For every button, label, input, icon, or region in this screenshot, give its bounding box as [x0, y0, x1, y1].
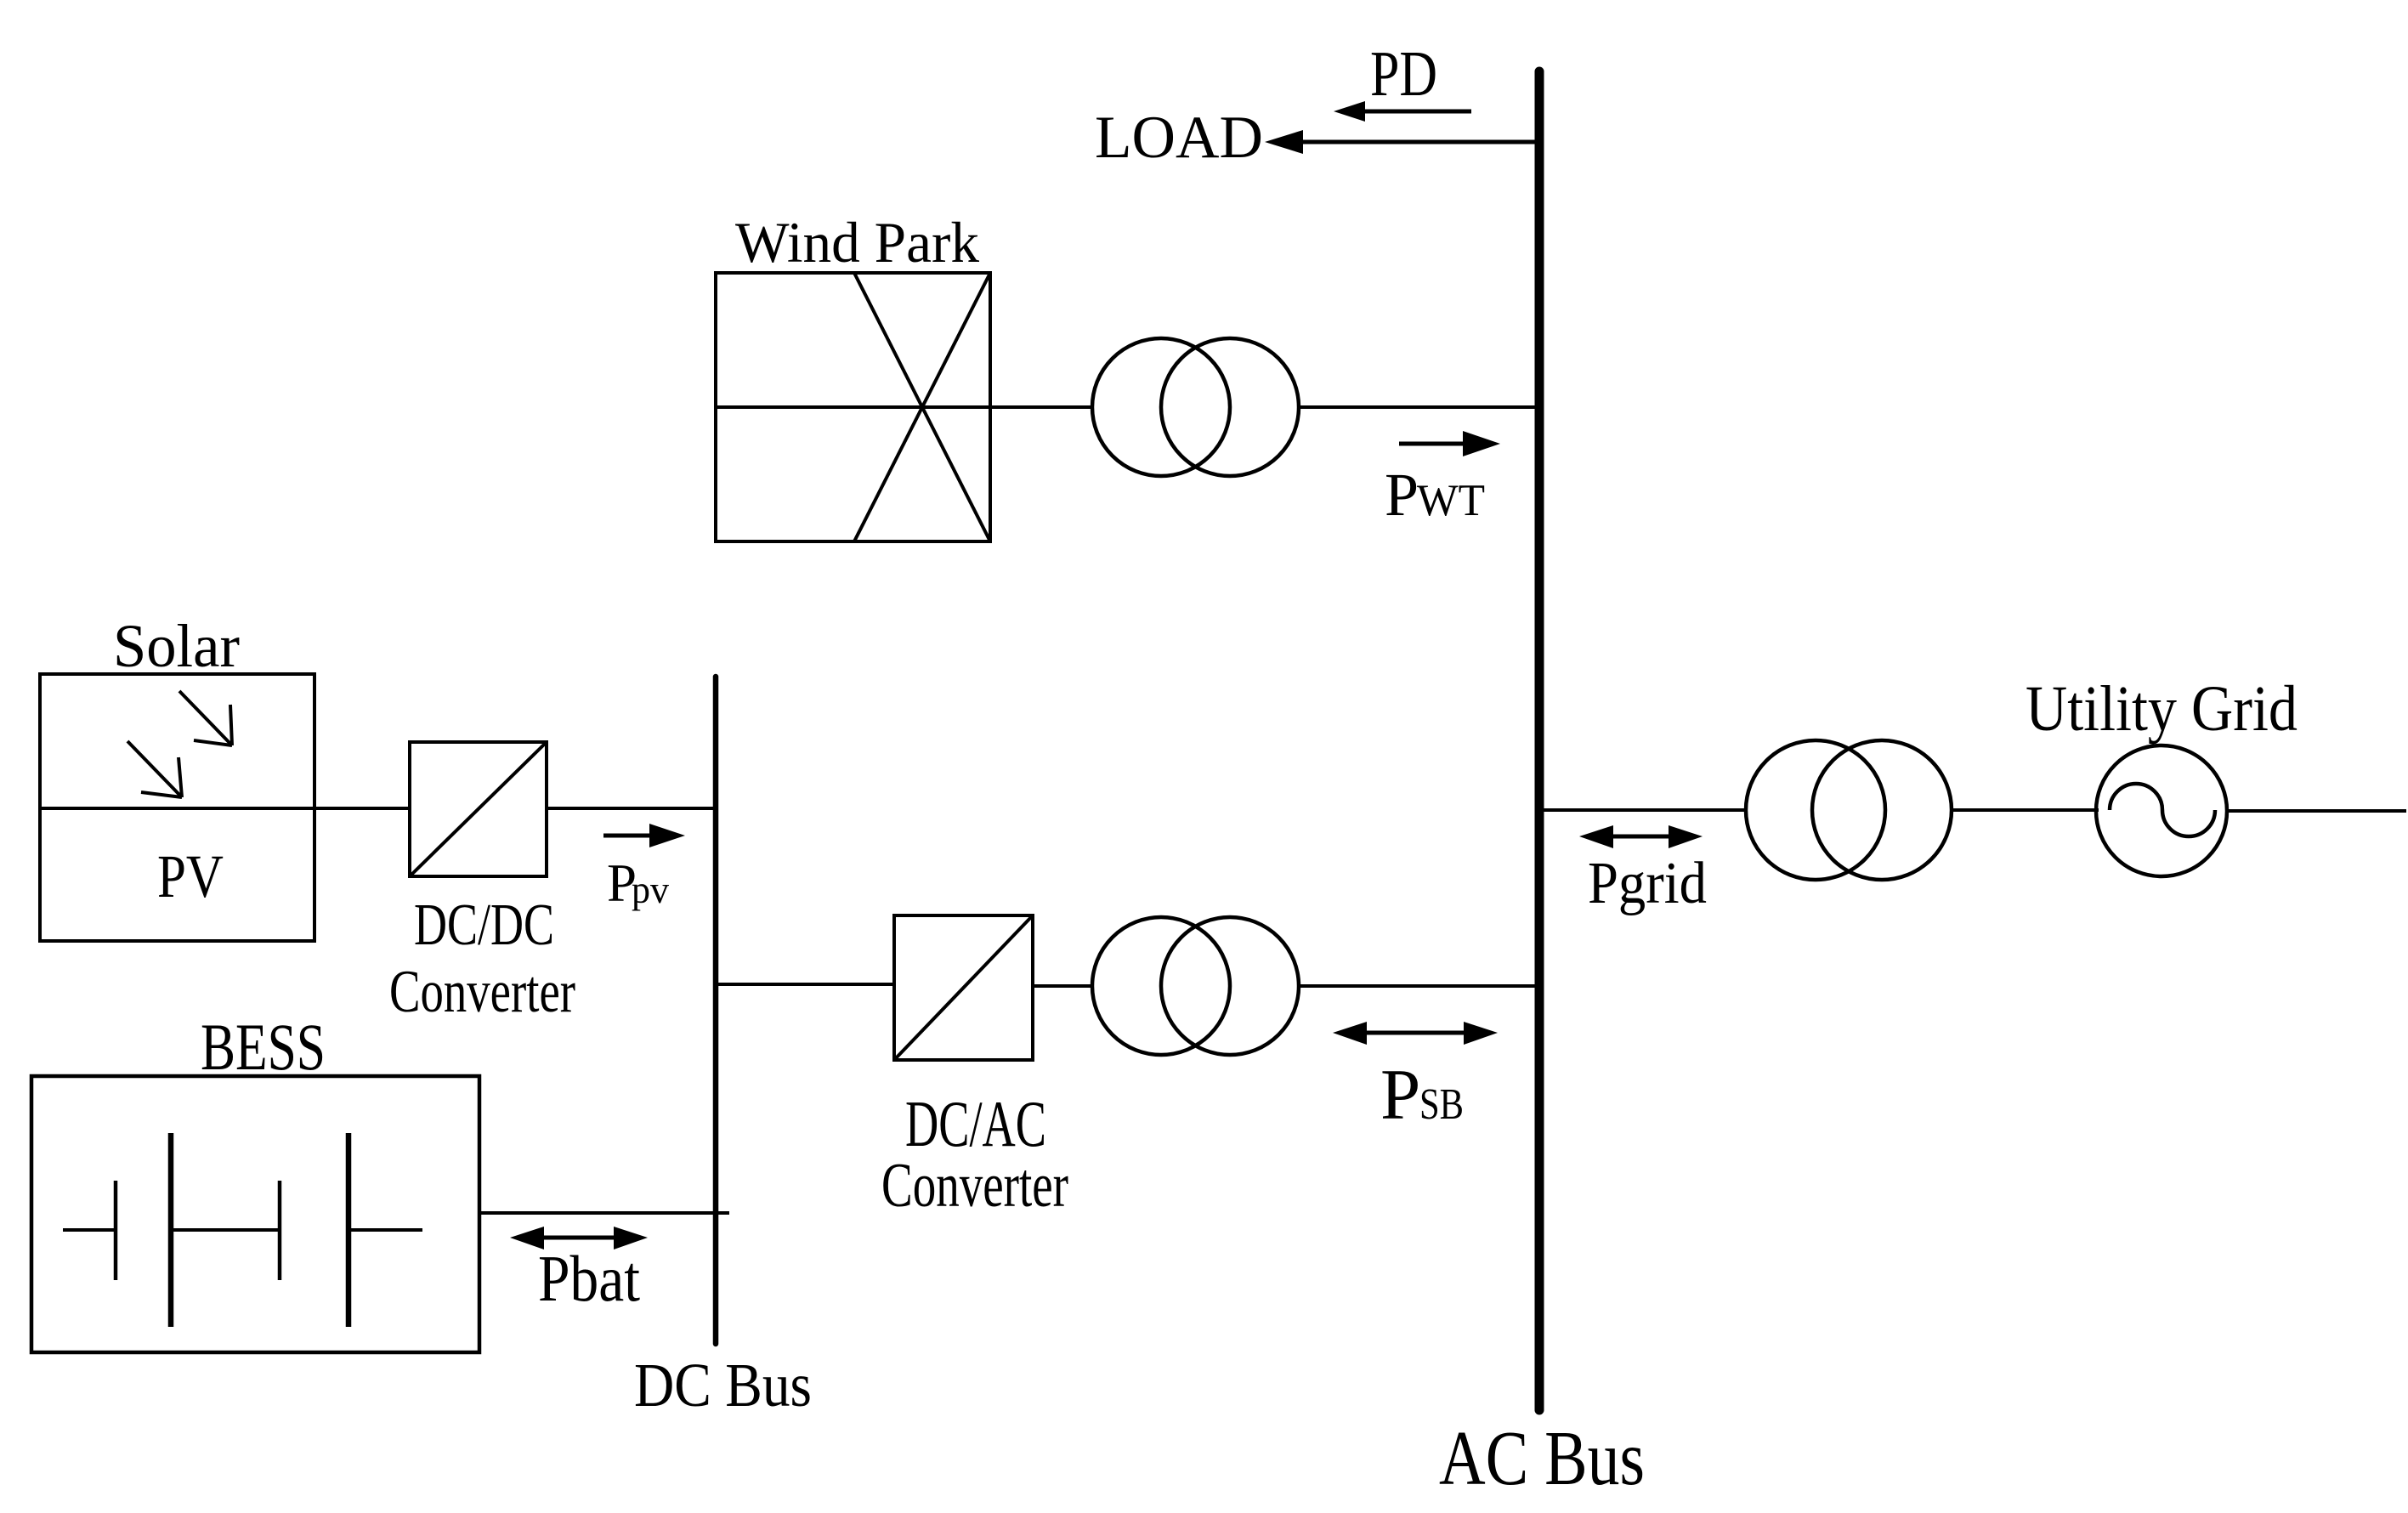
- svg-text:AC Bus: AC Bus: [1439, 1415, 1645, 1501]
- svg-text:Wind Park: Wind Park: [735, 210, 979, 275]
- arrow PD: [1334, 101, 1471, 122]
- AC bus: [1535, 71, 1544, 1410]
- svg-text:P: P: [1380, 1055, 1420, 1135]
- transformer T1: [1092, 338, 1299, 476]
- arrow LOAD feeder: [1265, 130, 1535, 154]
- svg-text:SB: SB: [1419, 1080, 1464, 1129]
- BESS box: [31, 1076, 479, 1352]
- arrow Pgrid (double): [1579, 825, 1703, 848]
- wire AC bus to transformer T3: [1544, 808, 1748, 812]
- svg-text:Utility Grid: Utility Grid: [2026, 673, 2298, 745]
- wire BESS to DC bus: [479, 1211, 729, 1215]
- battery B1: [63, 1133, 422, 1327]
- wire T3 to utility grid source: [1952, 808, 2099, 812]
- wire utility grid to edge: [2227, 809, 2406, 813]
- utility grid AC source G1: [2096, 745, 2227, 876]
- svg-text:LOAD: LOAD: [1095, 105, 1263, 171]
- wire T2 to AC bus: [1299, 984, 1535, 988]
- label Ppv: [607, 853, 669, 913]
- svg-text:P: P: [1385, 461, 1419, 529]
- DC/AC converter box: [894, 915, 1033, 1060]
- svg-text:DC Bus: DC Bus: [634, 1351, 812, 1419]
- PV array box: [40, 674, 314, 941]
- wire PV to DC/DC converter: [314, 807, 411, 810]
- sun ray arrow 2: [127, 741, 182, 797]
- DC/DC converter box: [410, 742, 547, 876]
- wire DC/AC to transformer T2: [1033, 984, 1094, 988]
- svg-text:PD: PD: [1370, 38, 1437, 110]
- svg-text:DC/AC: DC/AC: [905, 1087, 1046, 1160]
- transformer T2: [1092, 917, 1299, 1055]
- sun ray arrow 1: [179, 691, 232, 745]
- label PWT: [1385, 461, 1485, 529]
- svg-text:Converter: Converter: [881, 1151, 1068, 1221]
- transformer T3: [1746, 740, 1952, 880]
- svg-text:Solar: Solar: [113, 612, 240, 680]
- svg-text:PV: PV: [157, 842, 224, 910]
- arrow PWT: [1399, 431, 1500, 456]
- svg-text:Converter: Converter: [389, 959, 575, 1025]
- svg-text:DC/DC: DC/DC: [414, 892, 554, 958]
- arrow Pbat (double): [510, 1227, 648, 1249]
- arrow PSB (double): [1333, 1022, 1498, 1045]
- arrow Ppv: [603, 824, 685, 847]
- svg-text:pv: pv: [632, 868, 669, 911]
- DC bus: [713, 677, 719, 1344]
- wire DC/DC to DC bus: [547, 807, 716, 810]
- wire wind park to transformer T1: [990, 405, 1094, 409]
- svg-text:BESS: BESS: [201, 1010, 326, 1084]
- svg-text:Pbat: Pbat: [538, 1242, 640, 1315]
- svg-text:WT: WT: [1417, 476, 1485, 525]
- wire T1 to AC bus: [1299, 405, 1535, 409]
- wire DC bus to DC/AC converter: [716, 983, 896, 986]
- svg-text:Pgrid: Pgrid: [1588, 851, 1707, 916]
- label PSB: [1380, 1055, 1464, 1135]
- wind park box W1: [716, 273, 990, 541]
